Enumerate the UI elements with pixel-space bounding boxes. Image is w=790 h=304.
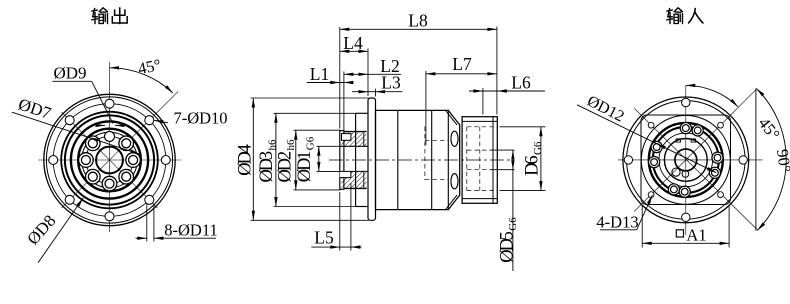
svg-text:L5: L5 <box>314 228 334 248</box>
diameter extension lines left side <box>251 97 369 99</box>
title input (Chinese) <box>667 8 683 23</box>
angular dim chord line <box>755 89 757 231</box>
right view inner hub circle <box>664 139 707 182</box>
press-fit boundary <box>363 133 365 147</box>
dimension L4 <box>340 50 368 52</box>
dimension 45 degrees right (arc) <box>686 85 738 106</box>
svg-text:L3: L3 <box>381 72 401 92</box>
right view square flange A1 <box>641 115 731 205</box>
right view corner holes 4-D13 <box>718 122 724 128</box>
left view bore circle <box>96 147 123 174</box>
right view hub circles <box>649 123 723 197</box>
right view diagonal 135 radial (to dim) <box>634 108 757 229</box>
section hatching lower <box>341 171 366 188</box>
dimension L7 <box>426 73 497 75</box>
right view tab marks <box>676 139 680 142</box>
svg-text:L1: L1 <box>310 64 329 84</box>
right view outer circles <box>623 97 749 223</box>
svg-text:ØD9: ØD9 <box>53 64 86 83</box>
left view bolt-hole pitch circle <box>53 104 166 217</box>
svg-text:L8: L8 <box>408 11 428 31</box>
input collar <box>462 117 497 204</box>
gearbox body <box>376 110 460 209</box>
dimension OD12 <box>577 105 716 173</box>
left view hole D9 at top <box>105 131 115 141</box>
dimension L5 <box>311 246 361 248</box>
right view screws 8x <box>712 152 723 163</box>
dimension OD3 h6 <box>275 113 277 206</box>
dimension OD8 <box>38 198 83 263</box>
dimension OD1 G6 <box>318 146 320 171</box>
left view centerlines <box>38 159 182 161</box>
dimension OD7 <box>12 112 140 154</box>
dimension A1 square <box>641 206 643 248</box>
chamfer inner lines <box>446 110 457 125</box>
dimension OD9 <box>52 80 91 82</box>
svg-text:A1: A1 <box>686 226 706 245</box>
output flange plate OD4 <box>368 98 376 220</box>
internal keyway notch <box>340 171 351 177</box>
svg-text:L4: L4 <box>343 33 363 53</box>
hidden bore D6 (dashed) <box>467 126 498 128</box>
extension lines bottom left <box>339 192 341 251</box>
left view bolt pitch circle <box>86 136 133 183</box>
dimension OD4 <box>252 98 254 220</box>
right view small holes pair <box>672 168 680 176</box>
dimension 4-D13 <box>600 229 637 231</box>
svg-text:7-ØD10: 7-ØD10 <box>173 109 227 128</box>
svg-text:L7: L7 <box>452 54 472 74</box>
external keyway box <box>342 134 351 141</box>
left view outer flange circles <box>44 94 175 225</box>
clamp ring holes (ellipses) <box>451 131 458 146</box>
title output (Chinese) <box>92 8 108 23</box>
ring shoulder <box>447 110 449 209</box>
dimension L2 <box>344 73 401 75</box>
left view screws 7x <box>126 153 141 168</box>
output boss OD3 <box>356 112 368 114</box>
dimension L3 <box>352 91 402 93</box>
right view bore circle <box>675 149 697 171</box>
bore OD1 lines <box>340 145 368 147</box>
hidden bore D5 lines <box>467 149 490 151</box>
dimension 90 degrees right (arc) <box>756 89 786 231</box>
dimension L1 <box>307 82 353 84</box>
middle view main axis centerline <box>329 159 514 161</box>
right view diagonal 45 radial (to dim) <box>634 90 756 212</box>
svg-text:8-ØD11: 8-ØD11 <box>164 221 217 240</box>
output shaft OD2 edges <box>344 131 367 133</box>
dimension 8-OD11 <box>146 204 148 242</box>
hidden coupling in body (dashed) <box>424 127 426 181</box>
dimension D6 G6 <box>500 126 546 128</box>
dimension 7-OD10 <box>154 120 168 123</box>
right view flange holes 4x <box>739 156 747 164</box>
svg-text:4-D13: 4-D13 <box>596 213 638 232</box>
svg-text:ØD4: ØD4 <box>236 144 256 175</box>
output shaft end disc <box>340 131 344 190</box>
right view centerlines <box>618 159 763 161</box>
dimension OD5 G6 <box>512 150 514 271</box>
left view flange holes 8x <box>161 156 170 165</box>
right view pilot circle <box>641 115 730 204</box>
extension lines top <box>339 27 341 129</box>
dimension 45 degrees left <box>110 68 174 93</box>
dimension OD2 h6 <box>295 130 297 190</box>
dimension L8 <box>340 28 497 30</box>
dimension L6 <box>469 90 545 92</box>
section hatching upper <box>341 133 366 147</box>
left view inner circles <box>61 112 158 209</box>
svg-text:L6: L6 <box>511 73 531 93</box>
